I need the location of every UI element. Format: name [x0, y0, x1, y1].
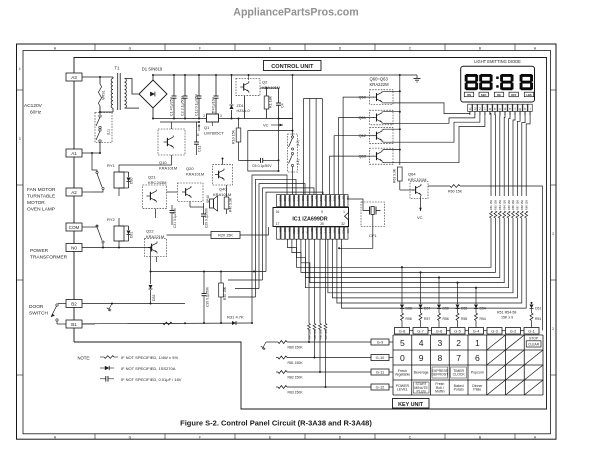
wires to IC supply pins — [304, 98, 323, 100]
capacitor C20 — [203, 203, 205, 214]
svg-text:R68 15K: R68 15K — [520, 200, 524, 210]
wire 0V rail extension — [279, 118, 294, 120]
svg-text:D2: D2 — [278, 229, 282, 233]
transistor Q60 — [370, 90, 394, 105]
svg-text:Q64: Q64 — [408, 172, 416, 177]
svg-text:OVEN LAMP: OVEN LAMP — [27, 207, 55, 213]
transistor Q63 — [370, 148, 394, 164]
svg-text:KRA101M: KRA101M — [159, 166, 177, 171]
svg-text:Q20: Q20 — [186, 166, 194, 171]
svg-text:KP3: KP3 — [319, 229, 323, 234]
svg-text:RST: RST — [292, 196, 296, 202]
wire COM to coil — [82, 223, 114, 227]
svg-text:IF NOT SPECIFIED, 1SS270A: IF NOT SPECIFIED, 1SS270A — [121, 366, 176, 371]
resistor R40 3.3K — [226, 185, 228, 197]
svg-text:R20 15K: R20 15K — [218, 234, 233, 238]
capacitor C30 — [203, 272, 205, 294]
IC1 top pin header — [277, 195, 351, 207]
svg-text:VDD: VDD — [287, 196, 291, 202]
wire Q40 top — [222, 159, 224, 165]
svg-text:CF1: CF1 — [369, 233, 377, 238]
svg-text:LM7805CT: LM7805CT — [204, 131, 224, 136]
+V rail — [153, 74, 400, 76]
svg-text:g: g — [519, 107, 521, 111]
svg-text:LIGHT EMITTING DIODE: LIGHT EMITTING DIODE — [474, 59, 521, 64]
keypad digit keys — [400, 338, 480, 363]
wire R20 net to IC — [262, 234, 264, 236]
seven-segment digit 4 — [520, 74, 533, 90]
resonator CF1 — [361, 202, 385, 227]
wire Q62 base — [334, 136, 369, 195]
svg-text:8: 8 — [437, 353, 442, 363]
svg-text:3: 3 — [474, 107, 476, 111]
svg-text:SP40: SP40 — [206, 195, 210, 203]
key column diode D54 resistor R54 — [475, 288, 477, 304]
svg-text:TRANSFORMER: TRANSFORMER — [30, 255, 68, 261]
wire bridge bottom to 0V rail — [152, 108, 154, 119]
diode D31 — [128, 226, 130, 230]
svg-text:OFF: OFF — [511, 93, 517, 97]
svg-text:D0: D0 — [287, 229, 291, 233]
row scan resistors — [308, 239, 328, 388]
wire A3 to transformer — [82, 76, 113, 78]
seven-segment digit 3 — [500, 74, 513, 90]
svg-text:G-2: G-2 — [510, 329, 517, 334]
svg-text:BZ: BZ — [315, 196, 319, 200]
svg-text:G-8: G-8 — [399, 329, 406, 334]
svg-text:R81 150K: R81 150K — [288, 361, 304, 365]
0V rail right — [219, 118, 294, 120]
wire N0 — [82, 247, 151, 249]
transistor Q62 — [370, 128, 394, 144]
wire Q61 to display digit pin — [393, 111, 475, 123]
svg-text:R69 15K: R69 15K — [524, 200, 528, 210]
svg-text:R51: R51 — [535, 317, 541, 321]
wire switch to A1 — [99, 142, 101, 153]
svg-text:R58: R58 — [406, 317, 412, 321]
svg-text:0: 0 — [400, 353, 405, 363]
svg-text:STOP: STOP — [529, 337, 539, 341]
svg-text:D32: D32 — [152, 295, 156, 301]
svg-text:4: 4 — [419, 338, 424, 348]
transistor Q40 KRA101M — [212, 165, 232, 185]
svg-text:f: f — [515, 107, 516, 111]
svg-text:7: 7 — [456, 353, 461, 363]
key row line G-12 — [276, 386, 278, 388]
LED display pin header — [468, 104, 533, 115]
svg-text:DEFROST: DEFROST — [432, 373, 450, 377]
svg-text:NOTE:: NOTE: — [78, 356, 91, 361]
svg-text:C31 0.1μ/50V: C31 0.1μ/50V — [173, 207, 177, 228]
svg-text:KEY UNIT: KEY UNIT — [398, 402, 424, 408]
capacitor C11 — [195, 122, 197, 141]
key column diode D55 resistor R55 — [457, 283, 459, 304]
wire Q21 Q20 links — [167, 191, 178, 193]
svg-text:Q60~Q63: Q60~Q63 — [370, 77, 389, 82]
wires IC1 top-left risers — [228, 175, 323, 323]
capacitor C2 — [184, 75, 186, 96]
wire B1 bus — [82, 323, 95, 325]
svg-text:D56: D56 — [443, 307, 449, 311]
svg-text:Q22: Q22 — [146, 229, 154, 234]
svg-text:R83 150K: R83 150K — [288, 390, 304, 394]
0V rail left — [153, 118, 207, 120]
svg-text:RY1: RY1 — [107, 163, 115, 168]
seven-segment digit 1 — [465, 74, 478, 90]
svg-text:G-4: G-4 — [473, 329, 480, 334]
terminal B1 — [66, 320, 82, 328]
svg-text:RST: RST — [333, 229, 337, 235]
svg-text:(L1): (L1) — [107, 129, 111, 135]
CONTROL UNIT label box — [264, 61, 322, 71]
svg-text:D1 SIN819: D1 SIN819 — [142, 67, 163, 72]
svg-text:R30 15K: R30 15K — [223, 286, 227, 300]
svg-text:RY2: RY2 — [324, 196, 328, 202]
svg-text:5: 5 — [400, 338, 405, 348]
bus junction dots — [401, 266, 477, 288]
svg-text:Q1: Q1 — [204, 125, 210, 130]
svg-text:R31 4.7K: R31 4.7K — [227, 315, 244, 320]
svg-text:R65 15K: R65 15K — [507, 200, 511, 210]
wire Q60 base — [343, 97, 369, 194]
capacitor C3 — [215, 75, 217, 96]
svg-text:3: 3 — [220, 114, 222, 118]
resistor R1 18K — [266, 88, 268, 96]
svg-text:IF NOT SPECIFIED, 1/4W ± 5%: IF NOT SPECIFIED, 1/4W ± 5% — [121, 355, 178, 360]
key column diode D51 resistor R51 — [531, 303, 533, 304]
svg-text:G-5: G-5 — [454, 329, 461, 334]
wire Q2 emitter to 0V rail — [244, 96, 246, 119]
seven-segment digit 2 — [479, 74, 492, 90]
display colon — [496, 77, 499, 80]
svg-text:b: b — [494, 107, 496, 111]
wire Q62 to display digit pin — [393, 111, 480, 142]
svg-text:COM: COM — [69, 225, 80, 230]
svg-text:TURNTABLE: TURNTABLE — [27, 194, 55, 200]
svg-text:9: 9 — [321, 210, 323, 214]
svg-text:2: 2 — [456, 338, 461, 348]
svg-text:VC: VC — [417, 215, 423, 220]
svg-text:DE: DE — [497, 93, 501, 97]
svg-text:KRC101M: KRC101M — [408, 177, 426, 182]
svg-text:KRA101M: KRA101M — [186, 172, 204, 177]
svg-text:1: 1 — [212, 110, 214, 114]
wire B2 — [82, 303, 185, 305]
speaker SP40 — [210, 199, 214, 208]
svg-text:D0: D0 — [337, 196, 341, 200]
key column diode D58 resistor R58 — [401, 267, 403, 304]
svg-text:ZD1: ZD1 — [237, 104, 244, 108]
door switch — [58, 303, 66, 305]
svg-text:RY2: RY2 — [301, 229, 305, 235]
svg-text:KP1: KP1 — [296, 196, 300, 201]
svg-text:16: 16 — [276, 210, 280, 214]
key row line G-9 — [276, 341, 278, 343]
keypad function keys — [395, 367, 484, 394]
display annunciator boxes — [464, 92, 533, 97]
monitor switch contacts (L1)(L2) — [288, 134, 298, 172]
svg-text:d: d — [504, 107, 506, 111]
svg-text:KRA222M: KRA222M — [370, 82, 390, 87]
diode D30 — [128, 172, 130, 177]
wire Q64 emitter VC — [420, 196, 422, 211]
svg-text:R82 150K: R82 150K — [288, 375, 304, 379]
svg-text:25: 25 — [320, 222, 324, 226]
svg-text:OSC: OSC — [328, 196, 332, 202]
svg-text:R61 15K: R61 15K — [489, 200, 493, 210]
svg-text:T1: T1 — [115, 66, 121, 71]
svg-text:KP1: KP1 — [328, 229, 332, 234]
svg-text:ON: ON — [467, 93, 471, 97]
svg-text:KRC243M: KRC243M — [148, 180, 166, 185]
svg-text:D1: D1 — [342, 196, 346, 200]
svg-text:CLOCK: CLOCK — [453, 373, 466, 377]
svg-text:Beverage: Beverage — [414, 371, 429, 375]
svg-text:IF NOT SPECIFIED, 0.01μF / 16: IF NOT SPECIFIED, 0.01μF / 16V — [121, 377, 182, 382]
svg-text:6: 6 — [475, 353, 480, 363]
wire regulator ground pin — [212, 122, 214, 126]
svg-text:KP4: KP4 — [310, 196, 314, 201]
resistor R63 3.3K — [398, 167, 403, 181]
svg-text:R1 18K: R1 18K — [269, 95, 273, 108]
svg-text:1: 1 — [475, 338, 480, 348]
svg-text:AC2: AC2 — [342, 229, 346, 235]
key row line G-11 — [276, 371, 278, 373]
svg-text:AC1: AC1 — [278, 196, 282, 202]
svg-text:KRA101M: KRA101M — [262, 85, 280, 90]
svg-text:POWER: POWER — [30, 248, 49, 254]
diode D32 — [150, 248, 152, 285]
interlock switch contacts — [99, 115, 101, 117]
svg-text:R63 3.3K: R63 3.3K — [393, 168, 397, 183]
transistor Q10 KRA101M — [158, 129, 185, 155]
svg-text:R57: R57 — [424, 317, 430, 321]
svg-text:B2: B2 — [71, 302, 77, 307]
svg-text:Vegetable: Vegetable — [395, 373, 411, 377]
resistor R10 15K — [238, 119, 240, 129]
ground at +V rail end — [400, 74, 417, 76]
svg-text:VRS1: VRS1 — [102, 90, 106, 100]
key strobe boxes G-8..G-1 — [395, 328, 540, 335]
svg-text:9: 9 — [419, 353, 424, 363]
svg-text:G-1: G-1 — [528, 329, 535, 334]
svg-text:D55: D55 — [461, 307, 467, 311]
svg-text:D30: D30 — [130, 178, 134, 184]
wire A1 branch — [92, 153, 97, 171]
wire Q60 to display digit pin — [393, 103, 470, 114]
svg-text:(L2): (L2) — [296, 140, 300, 146]
svg-text:R87 150K: R87 150K — [325, 328, 328, 339]
KEY UNIT label box — [393, 399, 430, 409]
capacitor C12 — [198, 75, 200, 96]
wire Q22 emitter — [156, 257, 158, 263]
svg-text:G: G — [129, 435, 132, 439]
svg-text:LBS: LBS — [526, 93, 532, 97]
svg-text:Figure S-2. Control Panel Circ: Figure S-2. Control Panel Circuit (R-3A3… — [180, 419, 372, 428]
svg-text:OS2: OS2 — [333, 196, 337, 202]
svg-text:A1: A1 — [71, 151, 77, 156]
svg-text:4: 4 — [19, 67, 21, 71]
key column diode D56 resistor R56 — [438, 278, 440, 305]
svg-text:VDD: VDD — [337, 229, 341, 235]
wire RY2 coil to Q22 — [118, 241, 120, 248]
svg-text:R85 150K: R85 150K — [314, 328, 317, 339]
svg-text:C30 0.1μ/50V: C30 0.1μ/50V — [206, 286, 210, 307]
svg-text:G: G — [129, 46, 132, 50]
varistor VRS1 — [99, 77, 101, 84]
svg-text:3: 3 — [437, 338, 442, 348]
wire right edge drop — [542, 186, 544, 331]
svg-text:D54: D54 — [480, 307, 486, 311]
svg-text:SEC: SEC — [481, 93, 487, 97]
collector rail for Q60-Q63 — [399, 75, 401, 165]
capacitor C1 — [173, 75, 175, 96]
wire bridge top to +rail — [152, 75, 154, 80]
svg-text:VC: VC — [263, 123, 269, 128]
svg-text:D51: D51 — [535, 307, 541, 311]
svg-text:A2: A2 — [71, 190, 77, 195]
svg-text:AC2: AC2 — [283, 196, 287, 202]
svg-text:3: 3 — [19, 137, 21, 141]
svg-text:F: F — [199, 46, 201, 50]
svg-text:FAN MOTOR: FAN MOTOR — [27, 187, 56, 193]
svg-text:MOTOR: MOTOR — [27, 200, 45, 206]
control unit boundary box — [74, 58, 547, 410]
key unit matrix grid — [393, 335, 543, 395]
wire primary top — [112, 77, 114, 79]
svg-text:Q21: Q21 — [148, 175, 156, 180]
svg-text:C20 0.1μ/50V: C20 0.1μ/50V — [205, 207, 209, 228]
svg-text:Popcorn: Popcorn — [471, 371, 484, 375]
IC1 bottom pin header — [277, 227, 351, 239]
svg-text:CLEAR: CLEAR — [528, 343, 540, 347]
svg-text:Q2: Q2 — [262, 80, 268, 85]
LED display box — [461, 66, 535, 102]
svg-text:C12 0.1μ/25V: C12 0.1μ/25V — [195, 93, 199, 116]
svg-text:CONTROL UNIT: CONTROL UNIT — [271, 64, 314, 70]
key row line G-10 — [276, 357, 278, 359]
svg-text:3: 3 — [552, 232, 554, 236]
svg-text:HZ4A-0: HZ4A-0 — [237, 109, 250, 113]
svg-text:e: e — [509, 107, 511, 111]
svg-text:R86 150K: R86 150K — [319, 328, 322, 339]
wire top of C30 R30 — [151, 271, 267, 273]
svg-text:R60 15K: R60 15K — [448, 190, 463, 194]
svg-text:R62 15K: R62 15K — [494, 200, 498, 210]
wire COM to RY2 — [82, 226, 97, 228]
svg-text:Potato: Potato — [454, 388, 464, 392]
svg-text:KP3: KP3 — [306, 196, 310, 201]
IC U1 IZA699DR body — [273, 208, 349, 227]
svg-text:Plate: Plate — [473, 388, 481, 392]
svg-text:KP2: KP2 — [324, 229, 328, 234]
svg-text:R10 15K: R10 15K — [232, 129, 236, 144]
wire A2 to RY1 arm — [82, 191, 92, 193]
capacitor C5 — [239, 159, 261, 161]
hatched unused keys — [487, 335, 543, 395]
wire Q10 top — [171, 122, 173, 129]
svg-text:C2 2.1μ/50V: C2 2.1μ/50V — [181, 95, 185, 116]
svg-text:LEVEL: LEVEL — [397, 388, 408, 392]
svg-text:R56: R56 — [443, 317, 449, 321]
terminal A2 — [66, 188, 82, 196]
wire switch cluster — [292, 75, 294, 136]
wire secondary to bridge — [125, 79, 140, 95]
transistor Q61 — [370, 110, 394, 125]
svg-text:RY1: RY1 — [319, 196, 323, 202]
svg-text:R67 15K: R67 15K — [516, 200, 520, 210]
interlock switch dashed box (L1) — [95, 113, 112, 143]
terminal COM — [66, 223, 82, 231]
svg-text:2: 2 — [552, 327, 554, 331]
capacitor C31 — [171, 205, 173, 211]
svg-text:OS2: OS2 — [292, 229, 296, 235]
segment resistors R61-R69 — [489, 111, 530, 218]
capacitor C4 — [278, 88, 280, 103]
svg-text:BZ: BZ — [310, 229, 314, 233]
terminal N0 — [66, 244, 82, 252]
ground mark near B2 — [109, 304, 112, 310]
svg-text:R66 15K: R66 15K — [511, 200, 515, 210]
svg-text:15K x 9: 15K x 9 — [501, 316, 513, 320]
transistor Q2 KRA101M — [236, 78, 260, 95]
terminal B2 — [66, 300, 82, 308]
svg-text:60Hz: 60Hz — [30, 110, 42, 116]
svg-text:D1: D1 — [283, 229, 287, 233]
wire Q63 to display digit pin — [393, 111, 485, 163]
svg-text:4: 4 — [469, 107, 471, 111]
svg-text:G-6: G-6 — [436, 329, 443, 334]
svg-text:G-7: G-7 — [417, 329, 424, 334]
svg-text:R55: R55 — [461, 317, 467, 321]
key column diode D57 resistor R57 — [420, 272, 422, 304]
svg-text:Q10: Q10 — [159, 160, 167, 165]
terminal A3 — [66, 73, 82, 81]
svg-text:AppliancePartsPros.com: AppliancePartsPros.com — [233, 7, 358, 19]
svg-text:D57: D57 — [424, 307, 430, 311]
wire routing loop left — [248, 131, 293, 171]
ground at G-9 row — [266, 341, 276, 343]
svg-text:C4: C4 — [281, 103, 285, 108]
svg-text:Q40: Q40 — [219, 187, 227, 192]
svg-text:AC120V: AC120V — [24, 103, 43, 109]
svg-text:D58: D58 — [406, 307, 412, 311]
svg-text:R54: R54 — [480, 317, 486, 321]
resistor R20 15K — [167, 234, 212, 236]
svg-text:C11: C11 — [198, 146, 202, 152]
svg-text:RY1: RY1 — [306, 229, 310, 235]
svg-text:2: 2 — [479, 107, 481, 111]
svg-text:1: 1 — [343, 210, 345, 214]
svg-text:SWITCH: SWITCH — [29, 311, 48, 317]
wire Q63 base — [330, 156, 370, 194]
svg-text:N0: N0 — [71, 246, 77, 251]
resistor R60 15K — [428, 185, 450, 187]
svg-text:R40 3.3K: R40 3.3K — [229, 197, 233, 212]
svg-text:R64 15K: R64 15K — [502, 200, 506, 210]
svg-text:Muffin: Muffin — [435, 390, 445, 394]
svg-text:32: 32 — [341, 222, 345, 226]
svg-text:G-10: G-10 — [376, 355, 385, 360]
regulator Q1 LM7805CT — [207, 114, 219, 122]
svg-text:(L1): (L1) — [296, 159, 300, 165]
terminal A1 — [66, 149, 82, 157]
wire secondary bottom to bridge — [125, 107, 140, 109]
svg-text:G-11: G-11 — [376, 370, 384, 375]
svg-text:R84 150K: R84 150K — [308, 328, 311, 339]
svg-text:C5 0.1μ/50V: C5 0.1μ/50V — [252, 164, 272, 168]
svg-text:OSC: OSC — [296, 229, 300, 235]
